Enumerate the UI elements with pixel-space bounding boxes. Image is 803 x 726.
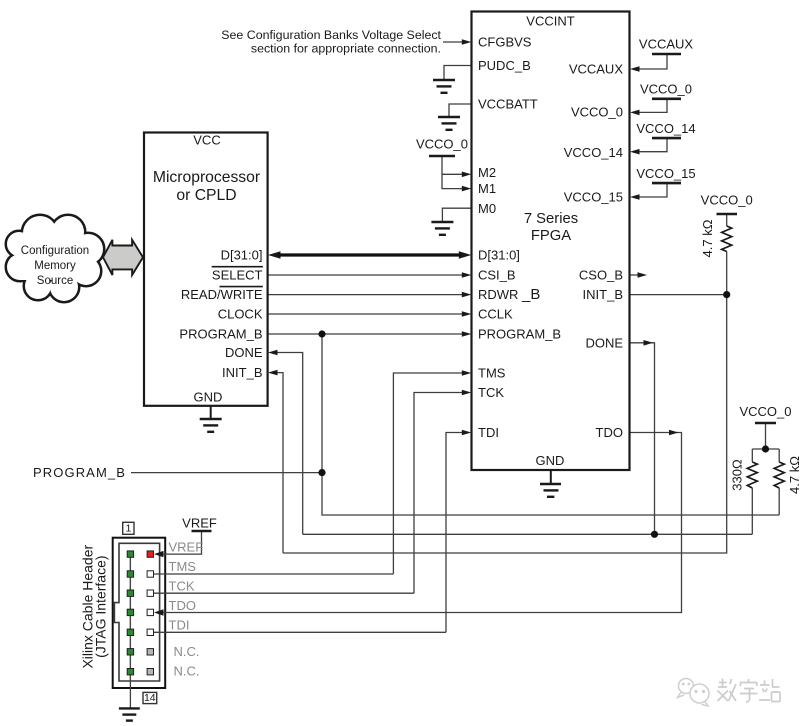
svg-text:Configuration: Configuration bbox=[21, 245, 89, 257]
svg-text:D[31:0]: D[31:0] bbox=[478, 248, 520, 263]
svg-text:PUDC_B: PUDC_B bbox=[478, 58, 531, 73]
svg-text:VCCO_15: VCCO_15 bbox=[636, 166, 695, 181]
svg-text:M0: M0 bbox=[478, 201, 496, 216]
svg-text:(JTAG Interface): (JTAG Interface) bbox=[93, 555, 109, 657]
svg-text:GND: GND bbox=[536, 453, 565, 468]
svg-text:SELECT: SELECT bbox=[212, 268, 263, 283]
svg-text:TMS: TMS bbox=[169, 559, 197, 574]
svg-text:Microprocessor: Microprocessor bbox=[153, 169, 260, 186]
svg-text:DONE: DONE bbox=[585, 335, 623, 350]
svg-text:TCK: TCK bbox=[478, 385, 504, 400]
svg-text:CSO_B: CSO_B bbox=[579, 268, 623, 283]
svg-text:PROGRAM_B: PROGRAM_B bbox=[478, 327, 561, 342]
svg-text:4.7 kΩ: 4.7 kΩ bbox=[700, 219, 715, 257]
svg-text:VCCO_14: VCCO_14 bbox=[564, 145, 623, 160]
svg-text:4.7 kΩ: 4.7 kΩ bbox=[787, 456, 802, 494]
svg-text:M2: M2 bbox=[478, 165, 496, 180]
svg-text:TDI: TDI bbox=[169, 618, 190, 633]
svg-text:CLOCK: CLOCK bbox=[218, 307, 263, 322]
svg-text:INIT_B: INIT_B bbox=[222, 365, 262, 380]
svg-text:CCLK: CCLK bbox=[478, 307, 513, 322]
svg-text:7 Series: 7 Series bbox=[524, 211, 578, 227]
svg-text:Source: Source bbox=[37, 275, 73, 287]
svg-text:TCK: TCK bbox=[169, 579, 195, 594]
svg-text:VCCO_0: VCCO_0 bbox=[416, 136, 468, 151]
svg-text:VCCAUX: VCCAUX bbox=[639, 37, 694, 52]
svg-text:VREF: VREF bbox=[182, 516, 217, 531]
svg-text:330Ω: 330Ω bbox=[730, 459, 745, 491]
svg-text:Memory: Memory bbox=[34, 260, 76, 272]
svg-text:VCC: VCC bbox=[193, 133, 220, 148]
svg-text:FPGA: FPGA bbox=[531, 228, 571, 244]
svg-text:INIT_B: INIT_B bbox=[583, 287, 623, 302]
svg-text:N.C.: N.C. bbox=[174, 644, 200, 659]
svg-text:VCCINT: VCCINT bbox=[526, 14, 574, 29]
svg-text:VCCO_0: VCCO_0 bbox=[739, 404, 791, 419]
svg-text:VCCO_0: VCCO_0 bbox=[640, 82, 692, 97]
svg-text:M1: M1 bbox=[478, 181, 496, 196]
svg-text:CFGBVS: CFGBVS bbox=[478, 35, 532, 50]
svg-text:READ/WRITE: READ/WRITE bbox=[181, 287, 263, 302]
svg-text:VCCO_15: VCCO_15 bbox=[564, 190, 623, 205]
svg-text:VCCAUX: VCCAUX bbox=[569, 62, 624, 77]
svg-text:section for appropriate connec: section for appropriate connection. bbox=[251, 42, 441, 56]
svg-text:TMS: TMS bbox=[478, 366, 506, 381]
svg-text:VCCO_0: VCCO_0 bbox=[701, 192, 753, 207]
svg-text:CSI_B: CSI_B bbox=[478, 268, 516, 283]
svg-text:N.C.: N.C. bbox=[174, 664, 200, 679]
svg-text:VREF: VREF bbox=[169, 539, 204, 554]
svg-text:TDO: TDO bbox=[169, 598, 196, 613]
svg-text:GND: GND bbox=[194, 389, 223, 404]
svg-text:See Configuration Banks Voltag: See Configuration Banks Voltage Select bbox=[221, 28, 441, 42]
svg-text:TDO: TDO bbox=[596, 425, 623, 440]
svg-text:PROGRAM_B: PROGRAM_B bbox=[179, 327, 262, 342]
svg-text:VCCBATT: VCCBATT bbox=[478, 97, 538, 112]
svg-text:TDI: TDI bbox=[478, 425, 499, 440]
svg-text:1: 1 bbox=[125, 523, 131, 535]
svg-text:RDWR _B: RDWR _B bbox=[478, 286, 540, 303]
svg-text:D[31:0]: D[31:0] bbox=[221, 248, 263, 263]
svg-text:14: 14 bbox=[144, 692, 156, 704]
svg-text:VCCO_14: VCCO_14 bbox=[636, 121, 695, 136]
svg-text:VCCO_0: VCCO_0 bbox=[571, 105, 623, 120]
svg-text:PROGRAM_B: PROGRAM_B bbox=[33, 465, 126, 480]
svg-text:DONE: DONE bbox=[225, 345, 263, 360]
svg-text:or CPLD: or CPLD bbox=[176, 187, 236, 204]
